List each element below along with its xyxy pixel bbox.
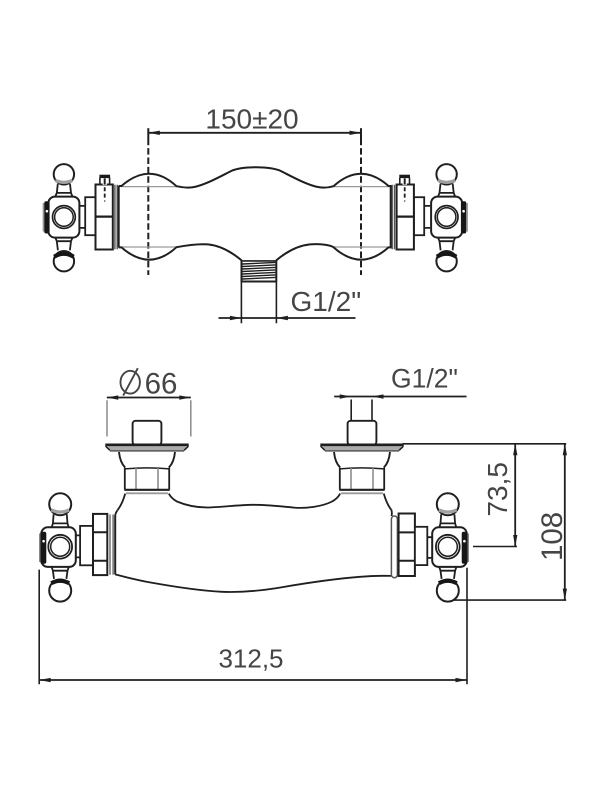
dimension Ø66 extension lines (107, 400, 191, 436)
dimension G1/2 (front) extension lines (351, 400, 372, 421)
top view body outline (119, 167, 392, 260)
bottom ball (54, 251, 74, 271)
dimension 108 text (536, 512, 569, 561)
dimension 108 bottom reference (453, 599, 566, 601)
dimension 312,5 extension lines (39, 568, 467, 685)
right cartridge housing (front view) (391, 514, 432, 578)
svg-text:312,5: 312,5 (218, 644, 283, 674)
right centerline (dashed) (360, 128, 362, 275)
front body outline (115, 502, 392, 592)
bell (119, 452, 175, 467)
dimension G1/2 (top view) line (219, 316, 356, 320)
square nut (133, 421, 162, 445)
feet (118, 494, 177, 510)
ring (53, 206, 76, 229)
left handle (top view) (43, 164, 79, 271)
ring (48, 535, 72, 559)
left handle (front view) (40, 493, 76, 601)
svg-text:G1/2": G1/2" (391, 364, 458, 394)
top neck (52, 514, 69, 527)
svg-text:66: 66 (145, 368, 178, 401)
body end edge (118, 186, 120, 248)
dimension Ø66 text (121, 368, 178, 401)
bottom neck (55, 237, 72, 250)
left escutcheon (105, 421, 188, 510)
left cartridge housing (front view) (76, 514, 115, 575)
hub (41, 527, 76, 567)
left cartridge housing (top view) (79, 175, 118, 250)
right handle (front view) (432, 493, 468, 601)
housing (93, 514, 107, 575)
stop screw tab (103, 178, 107, 185)
dimension 312,5 line (39, 678, 467, 682)
svg-text:108: 108 (536, 512, 569, 561)
right handle (top view) (431, 164, 467, 271)
cap (39, 534, 41, 563)
dimension 108 line (563, 444, 567, 600)
housing (399, 514, 415, 577)
screw centerline dashes (104, 187, 106, 197)
dimension 150±20 line (148, 131, 361, 135)
hub (48, 197, 79, 238)
right escutcheon (320, 421, 403, 510)
dimension G1/2 (top view) text (291, 286, 362, 317)
top ball (49, 493, 71, 515)
dimension 312,5 text (218, 644, 283, 674)
left centerline (dashed) (147, 128, 149, 275)
step (85, 197, 95, 235)
dimension 150±20 text (205, 103, 298, 134)
dimension G1/2 (front) line (334, 394, 466, 398)
dimension G1/2 (top view) extension lines (241, 282, 276, 324)
collar (110, 515, 113, 575)
connector (427, 537, 432, 558)
svg-text:73,5: 73,5 (482, 462, 513, 517)
svg-text:G1/2": G1/2" (291, 286, 362, 317)
body end capsule (391, 516, 397, 578)
svg-text:150±20: 150±20 (205, 103, 298, 134)
housing (96, 185, 113, 250)
dimension 73,5 extension line (flange top) (403, 443, 567, 445)
connector (79, 206, 85, 228)
flange plate (105, 444, 188, 450)
top ball (54, 164, 74, 184)
cap (42, 203, 44, 232)
bottom ball (49, 580, 71, 602)
collar (125, 468, 169, 490)
dimension G1/2 (front) text (391, 364, 458, 394)
dimension 73,5 line (513, 444, 517, 547)
connector (76, 535, 80, 557)
body end edge (114, 515, 116, 575)
right cartridge housing (top view) (391, 175, 430, 250)
dimension Ø66 line (107, 395, 191, 399)
top neck (55, 184, 72, 197)
threaded outlet G1/2 (241, 260, 277, 281)
dimension 73,5 text (482, 462, 513, 517)
step (80, 526, 94, 565)
bottom neck (52, 567, 69, 579)
step (415, 527, 427, 565)
dimension 73,5 bottom reference (473, 546, 517, 548)
collar (115, 185, 117, 250)
